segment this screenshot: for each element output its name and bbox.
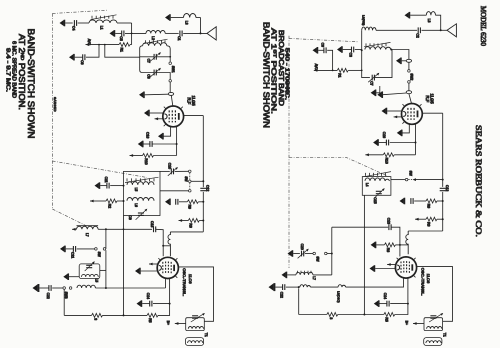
node <box>98 44 100 46</box>
trimmer capacitor C8 <box>154 70 156 76</box>
coil L4 secondary <box>365 47 391 50</box>
svg-text:C14: C14 <box>383 293 387 299</box>
wire down left <box>63 289 65 315</box>
capacitor C17 right <box>411 198 413 204</box>
trimmer capacitor C7 right <box>372 75 374 81</box>
wire <box>414 200 426 202</box>
svg-text:R5: R5 <box>148 318 152 322</box>
wire <box>343 49 352 51</box>
switch SW contact <box>189 170 192 173</box>
RF tube U1 1LG5 <box>163 106 184 127</box>
svg-text:C6: C6 <box>320 43 324 47</box>
T1 coil <box>188 341 203 343</box>
ground G30 <box>374 300 379 307</box>
svg-text:OSC.-TRANSL.: OSC.-TRANSL. <box>420 268 425 296</box>
svg-text:L2: L2 <box>151 36 155 40</box>
svg-text:R10: R10 <box>144 158 148 164</box>
svg-text:C2: C2 <box>415 33 419 37</box>
svg-text:GANGED: GANGED <box>53 97 57 112</box>
svg-text:SEARS ROEBUCK & CO.: SEARS ROEBUCK & CO. <box>474 125 484 237</box>
svg-text:R9: R9 <box>188 205 192 209</box>
svg-text:AT 2ND POSITION.: AT 2ND POSITION. <box>17 34 26 110</box>
wire <box>169 82 171 92</box>
capacitor C11 <box>107 183 109 189</box>
node <box>202 180 204 182</box>
wire <box>348 69 362 71</box>
node junction <box>131 33 133 35</box>
wire <box>69 276 79 278</box>
wire <box>305 253 313 255</box>
switch SW2 contact <box>408 81 411 84</box>
pin wire down <box>415 124 417 155</box>
svg-text:SW2: SW2 <box>410 73 414 80</box>
capacitor C12 right <box>440 188 446 190</box>
capacitor C21 <box>73 246 75 252</box>
svg-text:L5: L5 <box>134 188 138 192</box>
capacitor C17 <box>176 199 178 205</box>
wire <box>144 143 150 145</box>
plate bus down <box>202 116 204 188</box>
svg-text:L3: L3 <box>185 21 189 25</box>
coil L5 osc <box>77 285 95 288</box>
wire <box>374 50 392 78</box>
wire <box>130 44 132 46</box>
osc transformer box <box>186 318 205 331</box>
trimmer capacitor C15 <box>376 191 382 193</box>
node <box>361 70 363 72</box>
trimmer capacitor C7 <box>154 54 156 60</box>
svg-text:R9: R9 <box>426 204 430 208</box>
band coil box <box>124 171 161 215</box>
resistor R6 right <box>426 217 437 221</box>
wire <box>117 22 132 24</box>
grid choke right <box>406 231 408 254</box>
wire down <box>105 229 107 249</box>
switch contact <box>313 252 316 255</box>
svg-text:R2: R2 <box>107 204 111 208</box>
pin wire to ground <box>163 127 170 136</box>
wire <box>171 17 184 19</box>
resistor R1 right <box>337 68 348 72</box>
svg-text:C13: C13 <box>387 218 391 224</box>
ground G13 big <box>33 284 39 292</box>
ground G7 <box>158 133 163 140</box>
wire down right to transformer <box>105 45 140 58</box>
coil L4 in box <box>365 178 390 181</box>
wire <box>158 304 170 316</box>
pin wire down <box>176 126 178 155</box>
ganged switch dash-dot boundary mid vertical <box>288 36 290 268</box>
ground G3 <box>165 14 170 21</box>
ground G16 <box>405 12 410 19</box>
resistor R3 <box>92 313 103 317</box>
trimmer capacitor C10 <box>171 169 173 175</box>
wire <box>65 22 73 24</box>
wire <box>117 200 124 202</box>
coil L3 primary <box>362 27 376 30</box>
svg-text:C22: C22 <box>46 293 50 299</box>
ground G29 big <box>269 283 275 291</box>
svg-text:C6: C6 <box>80 60 84 64</box>
wire coil left leg <box>361 30 363 50</box>
svg-text:R8: R8 <box>386 248 390 252</box>
wire <box>141 270 158 272</box>
svg-text:SW: SW <box>184 176 188 181</box>
svg-text:R.F: R.F <box>186 98 191 105</box>
ground G11 <box>60 246 65 253</box>
ground G27 <box>288 250 293 257</box>
wire <box>156 73 170 80</box>
wire <box>183 32 207 34</box>
pin arrow <box>155 117 159 120</box>
switch contact <box>325 252 328 255</box>
plate wire <box>184 115 204 117</box>
lower row right <box>299 314 327 316</box>
svg-text:T1: T1 <box>442 333 446 337</box>
svg-text:R10: R10 <box>384 158 388 164</box>
B+ arrow <box>175 322 179 325</box>
svg-text:C9: C9 <box>128 215 132 219</box>
trimmer loop left <box>362 50 370 77</box>
wire <box>171 95 173 106</box>
ground G9 <box>165 199 170 206</box>
ground G23 <box>397 130 402 137</box>
wire <box>66 248 74 250</box>
wire to tube pin <box>407 277 409 303</box>
ground G26 <box>371 242 376 249</box>
node <box>123 228 125 230</box>
ground G17 <box>337 46 342 53</box>
node <box>332 70 334 72</box>
ganged switch dash-dot diagonal to osc coil <box>52 209 87 227</box>
node <box>202 220 204 222</box>
wire <box>391 227 400 256</box>
svg-text:L5: L5 <box>95 279 99 283</box>
wire <box>436 15 441 30</box>
svg-text:C13: C13 <box>150 221 154 227</box>
wire <box>153 303 170 305</box>
resistor R8 right <box>384 243 395 247</box>
svg-text:C4: C4 <box>72 26 76 30</box>
switch dashed link <box>189 173 191 190</box>
svg-text:C16: C16 <box>382 132 386 138</box>
wire <box>409 94 412 104</box>
svg-text:L8(OSC): L8(OSC) <box>337 291 341 302</box>
wire loop left edge <box>140 46 154 73</box>
capacitor C22 right <box>283 284 285 290</box>
ground G18 under trimmer <box>371 90 376 97</box>
svg-text:L4: L4 <box>365 183 369 187</box>
capacitor C13 right <box>389 224 391 230</box>
svg-text:SW1: SW1 <box>171 66 175 73</box>
plate wire <box>179 267 214 321</box>
node <box>105 287 107 289</box>
wire down <box>105 250 107 288</box>
svg-text:BROADCAST BAND: BROADCAST BAND <box>277 30 284 106</box>
svg-text:SW: SW <box>316 256 320 261</box>
wire <box>422 29 441 31</box>
AVC arrow small <box>90 200 94 203</box>
wire <box>395 304 408 315</box>
wire <box>327 253 332 255</box>
wire to grid chain <box>391 50 409 60</box>
resistor R2 <box>106 199 117 203</box>
wire <box>313 274 332 276</box>
antenna right <box>447 24 456 37</box>
switch contact arrow <box>412 178 416 181</box>
osc transformer box right <box>424 318 443 331</box>
wire <box>78 22 89 24</box>
svg-text:C10: C10 <box>167 163 171 169</box>
wire <box>311 286 339 288</box>
ground G28 <box>282 272 287 279</box>
coil L6 <box>127 198 154 201</box>
node <box>123 185 125 187</box>
osc tube U4 1LC6 <box>395 257 416 278</box>
svg-text:SW: SW <box>409 171 413 176</box>
resistor R9 right <box>426 199 437 203</box>
ground G12 <box>63 273 68 280</box>
wire <box>376 29 417 31</box>
svg-text:L1: L1 <box>100 26 104 30</box>
AVC arrow right <box>314 69 318 72</box>
svg-text:R6: R6 <box>189 223 193 227</box>
wire <box>175 170 189 172</box>
ground G4 <box>69 54 74 61</box>
svg-text:540 - 1700 KC.: 540 - 1700 KC. <box>284 48 290 100</box>
ground G10 <box>95 182 100 189</box>
wire <box>95 287 165 289</box>
capacitor C1 <box>180 31 182 37</box>
svg-text:C16: C16 <box>146 132 150 138</box>
svg-text:1LC6: 1LC6 <box>426 274 431 284</box>
resistor R5 <box>147 313 158 317</box>
capacitor C2 <box>418 27 420 33</box>
wire <box>286 286 299 288</box>
wire <box>75 56 83 58</box>
ground G19 <box>313 47 318 54</box>
wire <box>441 29 447 31</box>
node <box>407 303 409 305</box>
svg-text:R1: R1 <box>338 73 342 77</box>
capacitor C14 right <box>387 301 389 307</box>
capacitor C13 <box>154 226 156 232</box>
svg-text:1LG5: 1LG5 <box>429 94 434 105</box>
node <box>104 44 106 46</box>
svg-text:L3: L3 <box>427 19 431 23</box>
svg-text:C15: C15 <box>373 197 377 203</box>
wire <box>199 220 203 222</box>
ground G24 <box>373 139 378 146</box>
ganged switch dash-dot diagonal to band coil box <box>52 161 147 178</box>
node <box>123 200 125 202</box>
wire <box>346 278 404 287</box>
svg-text:C7: C7 <box>370 81 374 85</box>
ganged switch dash-dot top link right <box>289 38 358 41</box>
wire <box>98 228 106 230</box>
AVC arrow <box>179 219 183 222</box>
wire <box>410 14 426 16</box>
tube U4 pin stubs <box>397 258 416 278</box>
coil L5 <box>127 182 154 185</box>
tube U3 pin stubs <box>402 104 421 124</box>
wire <box>318 49 324 51</box>
wire <box>160 190 189 192</box>
svg-text:AVC: AVC <box>314 64 318 71</box>
wire <box>160 170 170 172</box>
node <box>361 49 363 51</box>
capacitor C5 <box>122 31 124 37</box>
svg-text:T1: T1 <box>204 333 208 337</box>
ground G25 <box>400 198 405 205</box>
svg-text:SW: SW <box>97 252 101 257</box>
switch SW2 contact <box>408 70 411 73</box>
grid cap oval 2 <box>406 91 411 94</box>
switch SW1 contact <box>169 62 172 64</box>
ground G15 <box>135 268 140 275</box>
node tie <box>162 245 164 247</box>
stub to tank box <box>100 269 106 271</box>
svg-text:9.4 - 9.7 MC.: 9.4 - 9.7 MC. <box>5 48 11 92</box>
switch SW3 contact <box>69 287 72 290</box>
coil L3 loop <box>184 14 196 18</box>
node <box>390 49 392 51</box>
ground G21 <box>377 91 382 98</box>
wire <box>437 218 443 220</box>
switch contact <box>95 248 98 251</box>
svg-text:1LG5: 1LG5 <box>191 96 196 107</box>
grid cap oval right <box>406 59 411 62</box>
node <box>169 303 171 305</box>
ganged switch dash-dot boundary left vertical <box>51 14 53 210</box>
ground G22 <box>382 108 387 115</box>
wire <box>142 303 150 305</box>
svg-text:3: 3 <box>329 317 333 319</box>
node <box>202 201 204 203</box>
coil in osc transformer <box>188 327 203 329</box>
plate bus lower right <box>442 192 444 231</box>
svg-text:C20: C20 <box>300 244 304 250</box>
osc tank tap arrow <box>72 228 76 231</box>
svg-text:C22: C22 <box>280 292 284 298</box>
resistor R3 right <box>327 313 338 317</box>
osc tube U2 1LC6 <box>157 257 178 278</box>
coil in padder box <box>82 274 99 277</box>
band switch contacts on box <box>127 178 154 181</box>
svg-text:MODEL 6230: MODEL 6230 <box>479 6 488 46</box>
band switch contacts on box right <box>366 173 386 176</box>
wire <box>198 201 203 203</box>
band switch contacts above L2 secondary <box>146 40 166 43</box>
ground G20 <box>396 58 401 65</box>
capacitor C4 <box>74 20 76 26</box>
B+ arrow right <box>413 322 417 325</box>
ganged switch dash-dot diagonal right <box>289 157 388 176</box>
osc padder box <box>79 264 100 279</box>
svg-text:B+: B+ <box>166 321 170 325</box>
RF tube U3 1LG5 <box>402 104 423 125</box>
B supply arrow right <box>365 153 369 156</box>
wire <box>395 244 400 246</box>
coil in osc transformer right <box>427 327 442 329</box>
ground G2 <box>110 30 115 37</box>
resistor R1 <box>119 43 130 47</box>
resistor R10 <box>143 154 154 158</box>
wire lower row <box>64 314 91 316</box>
wire corner down <box>131 23 133 45</box>
plate bus right <box>442 113 444 187</box>
wire <box>437 200 443 202</box>
svg-text:R5: R5 <box>385 317 389 321</box>
AVC arrow <box>415 218 419 221</box>
plate wire <box>422 112 442 114</box>
switch dashed gap <box>408 179 412 181</box>
switch SW1 contact <box>169 80 172 83</box>
switch SW contact <box>189 190 192 193</box>
pin wire to ground <box>402 124 409 132</box>
wire <box>390 303 408 305</box>
svg-text:C14: C14 <box>146 293 150 299</box>
wire up from junction <box>200 18 202 34</box>
plate bus lower <box>202 192 204 232</box>
ground G5 <box>139 92 144 99</box>
switch SW contact <box>189 180 192 183</box>
pin arrow <box>394 116 398 119</box>
osc grid row right <box>332 226 388 228</box>
svg-text:L6: L6 <box>134 203 138 207</box>
coil L1 <box>89 20 117 23</box>
ground G6 at tube cathode <box>144 110 149 117</box>
wire <box>145 93 169 96</box>
capacitor C12 in bus <box>200 188 206 190</box>
wire <box>150 112 164 114</box>
ganged switch dash-dot top link <box>52 10 107 13</box>
wire <box>39 287 49 289</box>
wire <box>191 180 203 182</box>
bus corner to osc grid right <box>408 230 443 232</box>
node <box>442 218 444 220</box>
wire <box>338 314 384 316</box>
wire <box>154 155 177 157</box>
capacitor C22 <box>49 285 51 291</box>
ground G14 <box>137 300 142 307</box>
switch contacts above osc coil <box>298 271 312 274</box>
tank vertical right <box>331 227 333 275</box>
wire to tube pin <box>165 278 167 288</box>
antenna left <box>207 27 216 40</box>
ground G8 <box>138 141 143 148</box>
wire <box>196 17 201 19</box>
node <box>169 56 171 58</box>
svg-text:R6: R6 <box>426 222 430 226</box>
grid choke <box>168 232 170 256</box>
wire right edge of transformer <box>167 46 170 62</box>
trimmer capacitor C9 <box>138 213 144 215</box>
wire <box>163 245 170 247</box>
svg-text:AVC: AVC <box>87 39 91 46</box>
wire <box>52 287 63 289</box>
coil L2 secondary <box>143 43 167 46</box>
capacitor C6 right <box>324 47 326 53</box>
node <box>123 314 125 316</box>
svg-text:OSC.-TRANSL.: OSC.-TRANSL. <box>182 268 187 296</box>
wire <box>165 32 179 34</box>
node <box>442 179 444 181</box>
trimmer on osc transformer <box>192 316 198 318</box>
resistor R5 right <box>384 313 395 317</box>
svg-text:C12: C12 <box>445 185 449 191</box>
T1 secondary box <box>185 338 203 346</box>
